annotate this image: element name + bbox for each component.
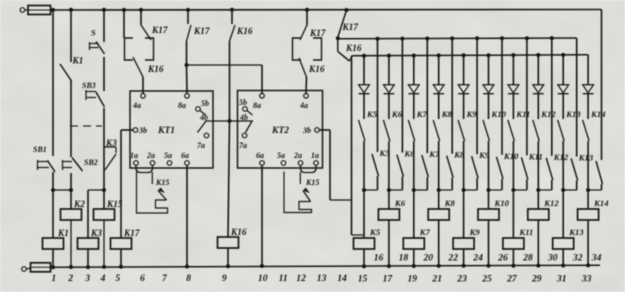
svg-text:27: 27 bbox=[506, 274, 518, 285]
svg-text:К13: К13 bbox=[565, 109, 581, 119]
svg-text:13: 13 bbox=[317, 273, 327, 284]
contact К7 (upper row) bbox=[408, 109, 427, 190]
svg-text:S: S bbox=[91, 28, 96, 38]
svg-text:КТ2: КТ2 bbox=[271, 126, 289, 136]
svg-text:К13: К13 bbox=[568, 227, 584, 237]
relay coil К7 bbox=[403, 190, 430, 268]
svg-text:1а: 1а bbox=[311, 151, 319, 160]
svg-text:24: 24 bbox=[472, 253, 483, 264]
KT2 pins 6a 5a 2a 1a bbox=[256, 151, 319, 165]
pushbutton SB1 bbox=[33, 145, 55, 172]
contact К11 (lower row) bbox=[521, 36, 542, 190]
wire K16 coil to terminal 9 bbox=[226, 248, 230, 268]
wire C middle bbox=[103, 57, 105, 91]
svg-text:К6: К6 bbox=[391, 109, 403, 119]
KT1 pin 5b bbox=[196, 99, 209, 115]
wire junction jog bbox=[462, 188, 478, 192]
svg-text:SB3: SB3 bbox=[82, 81, 96, 90]
KT1 contact 4b bbox=[198, 113, 230, 133]
relay coil К13 bbox=[553, 190, 585, 268]
svg-text:К8: К8 bbox=[444, 198, 456, 208]
contact К6 (lower row) bbox=[397, 37, 415, 190]
connector bracket left (right block) bbox=[293, 38, 302, 60]
svg-text:31: 31 bbox=[556, 274, 567, 285]
svg-text:20: 20 bbox=[423, 253, 434, 264]
fuse FU1 (top left) bbox=[20, 6, 50, 15]
contact К13 (upper row) bbox=[558, 109, 582, 190]
wire junction jog bbox=[362, 188, 378, 192]
pushbutton SB2 bbox=[63, 158, 98, 172]
wire K1 coil to terminal 1 bbox=[51, 249, 55, 269]
svg-text:16: 16 bbox=[374, 253, 384, 264]
wire node to KT1 8a and KT2 8a bbox=[185, 41, 263, 93]
KT1 pin 4a bbox=[132, 94, 145, 111]
svg-text:К15: К15 bbox=[305, 178, 319, 187]
svg-text:1а: 1а bbox=[130, 151, 138, 160]
relay coil К8 bbox=[428, 190, 455, 268]
svg-text:К6: К6 bbox=[394, 198, 406, 208]
svg-text:21: 21 bbox=[431, 274, 442, 285]
svg-text:К17: К17 bbox=[193, 26, 210, 36]
svg-text:4а: 4а bbox=[299, 101, 308, 110]
svg-text:4: 4 bbox=[100, 273, 106, 284]
relay coil К11 bbox=[503, 190, 533, 268]
svg-text:К5: К5 bbox=[366, 109, 378, 119]
KT1 pin 8a bbox=[178, 94, 189, 111]
contact К10 (upper row) bbox=[483, 109, 507, 190]
svg-text:5: 5 bbox=[115, 273, 120, 284]
fuse FU2 (bottom left) bbox=[22, 263, 51, 272]
contact К9 (lower row) bbox=[472, 36, 490, 190]
contact К8 (upper row) bbox=[433, 109, 452, 190]
svg-text:11: 11 bbox=[279, 273, 288, 284]
KT2 pin 3b bbox=[302, 126, 319, 135]
svg-text:К9: К9 bbox=[469, 227, 481, 237]
svg-text:К16: К16 bbox=[230, 227, 247, 237]
diode VD4 bbox=[433, 53, 444, 119]
KT2 pin 7a bbox=[239, 133, 247, 150]
connector bracket right bbox=[145, 38, 154, 60]
svg-text:2а: 2а bbox=[146, 151, 155, 160]
diode VD8 bbox=[533, 53, 544, 119]
svg-text:К15: К15 bbox=[155, 178, 169, 187]
relay coil K17 bbox=[111, 228, 140, 249]
svg-text:14: 14 bbox=[337, 273, 347, 284]
contact K17 upper bbox=[139, 8, 168, 40]
contact K3 (NO) bbox=[104, 138, 117, 170]
svg-text:К2: К2 bbox=[73, 199, 85, 209]
terminal numbers 16-34 (even) bbox=[374, 253, 602, 264]
contact K17 middle bbox=[186, 8, 210, 41]
pushbutton SB3 bbox=[82, 81, 105, 107]
relay coil K1 bbox=[43, 228, 69, 249]
wire to K3 coil bbox=[88, 190, 104, 238]
svg-text:К1: К1 bbox=[72, 56, 84, 66]
svg-text:К16: К16 bbox=[308, 64, 325, 74]
relay coil K3 bbox=[78, 228, 103, 249]
svg-text:К11: К11 bbox=[515, 109, 530, 119]
svg-text:5а: 5а bbox=[277, 151, 285, 160]
svg-text:К10: К10 bbox=[494, 198, 510, 208]
relay coil K16 bbox=[218, 227, 247, 248]
contact К10 (lower row) bbox=[497, 36, 520, 190]
wire column A from top bus bbox=[51, 8, 55, 156]
KT1 pin 7a bbox=[197, 133, 209, 150]
svg-text:25: 25 bbox=[481, 274, 492, 285]
wire junction jog bbox=[437, 188, 453, 192]
svg-text:К10: К10 bbox=[491, 109, 507, 119]
svg-text:К12: К12 bbox=[543, 198, 559, 208]
wire junction jog bbox=[536, 188, 552, 192]
svg-text:19: 19 bbox=[408, 274, 418, 285]
contact К9 (upper row) bbox=[458, 109, 477, 190]
wire ring bus 1 bbox=[338, 37, 577, 40]
contact K17 (right block) bbox=[300, 8, 326, 40]
wire junction jog bbox=[487, 188, 503, 192]
wire B middle bbox=[70, 80, 72, 157]
mechanical link dashes bbox=[70, 125, 102, 127]
wire stub from bus to connector bbox=[122, 8, 126, 38]
contact K1 (NO) bbox=[60, 56, 83, 82]
contact К6 (upper row) bbox=[383, 109, 402, 190]
KT1 pin 3b bbox=[133, 126, 147, 135]
svg-text:3: 3 bbox=[84, 273, 90, 284]
svg-text:К17: К17 bbox=[151, 25, 168, 35]
wire column C from top bus bbox=[102, 8, 106, 42]
svg-text:К13: К13 bbox=[578, 153, 594, 163]
wire column B from top bus bbox=[69, 8, 73, 62]
wire to KT1 terminal 4a bbox=[142, 77, 144, 93]
KT2 pin 5b bbox=[239, 98, 253, 115]
svg-text:3b: 3b bbox=[302, 126, 311, 135]
svg-text:К16: К16 bbox=[147, 64, 164, 74]
connector bracket right (right block) bbox=[313, 38, 322, 60]
contact K16 (ring feeder) bbox=[338, 38, 362, 61]
relay coil К10 bbox=[478, 190, 510, 268]
svg-text:SB2: SB2 bbox=[84, 158, 98, 167]
svg-text:К3: К3 bbox=[90, 228, 102, 238]
wire junction jog bbox=[511, 188, 527, 192]
relay coil К14 bbox=[578, 190, 610, 267]
wire KT2 6a to terminal 10 bbox=[260, 166, 264, 269]
wire junction jog bbox=[586, 188, 601, 192]
wire top supply bus bbox=[51, 9, 602, 12]
wire ring return (K16 to K5 coil) bbox=[352, 56, 365, 236]
svg-text:К17: К17 bbox=[309, 28, 326, 38]
svg-text:12: 12 bbox=[296, 273, 306, 284]
wire K2 coil to terminal 2 bbox=[69, 220, 73, 269]
relay coil К6 bbox=[378, 190, 405, 268]
svg-text:К7: К7 bbox=[416, 109, 428, 119]
svg-text:К12: К12 bbox=[540, 109, 556, 119]
svg-text:К16: К16 bbox=[345, 43, 362, 53]
svg-text:7а: 7а bbox=[239, 141, 247, 150]
svg-text:К12: К12 bbox=[553, 152, 569, 162]
wire KT1 6a to terminal 8 bbox=[185, 166, 189, 269]
svg-text:К11: К11 bbox=[518, 227, 533, 237]
svg-text:28: 28 bbox=[522, 253, 533, 264]
jumper 1a-2a bbox=[136, 166, 153, 173]
diode VD2 bbox=[384, 54, 395, 119]
contact К14 (lower row, right rail) bbox=[596, 10, 603, 191]
wire junction jog bbox=[412, 188, 428, 192]
relay coil К9 bbox=[453, 190, 480, 268]
wire K16 contact down to K16 coil bbox=[228, 41, 232, 237]
timer relay KT2 box bbox=[238, 91, 323, 169]
svg-text:8а: 8а bbox=[178, 101, 186, 110]
svg-text:9: 9 bbox=[222, 273, 227, 284]
relay coil К12 bbox=[528, 190, 560, 268]
contact K16 lower bbox=[133, 57, 164, 77]
svg-text:4а: 4а bbox=[132, 101, 141, 110]
contact K15 (below KT2) bbox=[284, 172, 319, 213]
wire A lower bbox=[51, 172, 71, 238]
svg-text:5b: 5b bbox=[201, 99, 209, 108]
jumper 2a-1a bbox=[301, 166, 317, 173]
diode VD6 bbox=[483, 53, 494, 119]
KT1 pins 1a 2a 5a 6a bbox=[130, 151, 189, 165]
relay coil К5 bbox=[354, 190, 381, 268]
contact K15 (below KT1) bbox=[137, 172, 170, 214]
svg-text:26: 26 bbox=[497, 253, 508, 264]
svg-text:22: 22 bbox=[447, 253, 458, 264]
wire K3 coil to terminal 3 bbox=[86, 249, 90, 269]
contact К14 (upper row) bbox=[583, 109, 607, 190]
svg-text:К5: К5 bbox=[369, 227, 381, 237]
wire K15 coil to terminal 4 bbox=[102, 220, 106, 269]
svg-text:17: 17 bbox=[383, 274, 394, 285]
wire KT2 3b to ring bus bbox=[319, 130, 351, 200]
svg-text:10: 10 bbox=[258, 273, 268, 284]
KT2 contact 4b bbox=[230, 113, 254, 133]
contact K17 (ring feeder) bbox=[336, 8, 359, 40]
svg-text:К9: К9 bbox=[466, 109, 478, 119]
svg-text:23: 23 bbox=[456, 274, 467, 285]
KT2 pin 8a bbox=[253, 94, 264, 111]
relay coil K15 bbox=[94, 199, 123, 220]
terminal numbers 1-14 bbox=[51, 273, 347, 284]
svg-text:К14: К14 bbox=[593, 198, 609, 208]
wire junction jog bbox=[561, 188, 577, 192]
svg-text:2а: 2а bbox=[293, 151, 302, 160]
switch S bbox=[90, 28, 105, 55]
svg-text:6а: 6а bbox=[181, 151, 189, 160]
svg-text:7а: 7а bbox=[197, 141, 205, 150]
svg-text:К14: К14 bbox=[590, 109, 606, 119]
contact K16 middle bbox=[230, 8, 253, 41]
contact К13 (lower row) bbox=[571, 38, 594, 190]
relay coil K2 bbox=[61, 199, 86, 220]
diode VD10 bbox=[583, 55, 594, 119]
wire bottom supply bus bbox=[51, 265, 601, 267]
svg-text:КТ1: КТ1 bbox=[157, 126, 175, 136]
diode VD7 bbox=[508, 53, 519, 119]
contact К7 (lower row) bbox=[422, 37, 440, 191]
svg-text:29: 29 bbox=[531, 274, 542, 285]
svg-text:1: 1 bbox=[51, 273, 56, 284]
svg-text:К8: К8 bbox=[441, 109, 453, 119]
svg-text:30: 30 bbox=[547, 253, 558, 264]
timer relay KT1 box bbox=[130, 91, 213, 168]
svg-text:К17: К17 bbox=[342, 22, 359, 32]
svg-text:15: 15 bbox=[358, 274, 368, 285]
contact К5 (lower row) bbox=[372, 37, 390, 190]
wire KT1 3b to K17 coil bbox=[121, 130, 133, 238]
diode VD3 bbox=[408, 54, 419, 120]
wire junction jog bbox=[387, 188, 403, 192]
svg-text:К10: К10 bbox=[503, 151, 519, 161]
contact К11 (upper row) bbox=[508, 109, 530, 190]
svg-text:SB1: SB1 bbox=[33, 145, 47, 154]
contact К5 (upper row) bbox=[359, 109, 378, 190]
contact К12 (upper row) bbox=[533, 109, 557, 190]
svg-text:К7: К7 bbox=[419, 227, 431, 237]
wire K17 coil to terminal 5 bbox=[119, 249, 123, 269]
svg-text:8: 8 bbox=[186, 273, 191, 284]
svg-text:3b: 3b bbox=[138, 126, 147, 135]
wire to KT2 pin 4a bbox=[305, 77, 308, 93]
wire B lower bbox=[69, 173, 73, 209]
svg-text:32: 32 bbox=[572, 253, 583, 264]
svg-text:6а: 6а bbox=[256, 151, 264, 160]
svg-text:К16: К16 bbox=[236, 26, 253, 36]
svg-text:5а: 5а bbox=[164, 151, 172, 160]
contact К8 (lower row) bbox=[447, 36, 465, 190]
svg-text:18: 18 bbox=[399, 253, 409, 264]
KT2 pin 4a bbox=[299, 94, 308, 111]
svg-text:К1: К1 bbox=[57, 228, 69, 238]
svg-text:К17: К17 bbox=[123, 228, 140, 238]
diode VD1 bbox=[359, 54, 370, 119]
contact К12 (lower row) bbox=[546, 36, 569, 190]
svg-text:34: 34 bbox=[591, 253, 602, 264]
svg-text:33: 33 bbox=[581, 274, 592, 285]
contact K16 (right block) bbox=[299, 58, 325, 77]
svg-text:8а: 8а bbox=[253, 101, 261, 110]
svg-text:6: 6 bbox=[140, 273, 145, 284]
svg-text:К11: К11 bbox=[528, 151, 543, 161]
diode VD5 bbox=[458, 53, 469, 119]
wire ring bus 2 bbox=[352, 55, 588, 56]
svg-text:2: 2 bbox=[67, 273, 73, 284]
diode VD9 bbox=[558, 53, 569, 119]
svg-text:5b: 5b bbox=[239, 98, 247, 107]
terminal numbers 15-33 (odd) bbox=[358, 274, 592, 285]
connector bracket left bbox=[125, 38, 134, 60]
wire C lower bbox=[102, 108, 106, 209]
